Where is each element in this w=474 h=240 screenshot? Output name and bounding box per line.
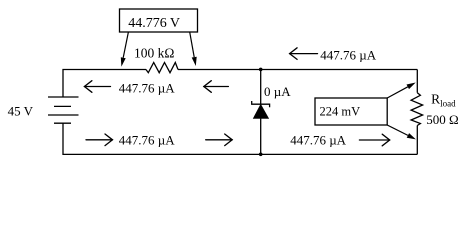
svg-text:500 Ω: 500 Ω bbox=[426, 112, 458, 127]
svg-text:45 V: 45 V bbox=[8, 104, 34, 119]
svg-text:44.776 V: 44.776 V bbox=[128, 16, 180, 31]
svg-text:0 µA: 0 µA bbox=[264, 84, 291, 99]
svg-text:224 mV: 224 mV bbox=[320, 104, 361, 118]
svg-text:447.76 µA: 447.76 µA bbox=[290, 133, 346, 148]
svg-text:100 kΩ: 100 kΩ bbox=[134, 45, 174, 60]
svg-text:447.76 µA: 447.76 µA bbox=[119, 80, 175, 95]
svg-text:447.76 µA: 447.76 µA bbox=[119, 133, 175, 148]
svg-text:447.76 µA: 447.76 µA bbox=[320, 47, 376, 62]
